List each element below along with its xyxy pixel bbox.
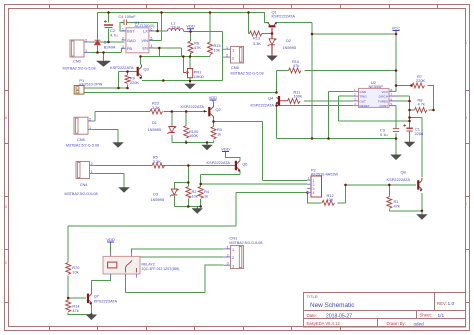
svg-text:VDD: VDD [221,146,230,151]
svg-text:4: 4 [354,102,356,106]
wire CN4 pin2 to R5 [90,165,152,167]
junction [388,184,391,187]
wire P2 pin4 to R12 [308,193,322,203]
junction [160,11,163,14]
svg-text:220K: 220K [130,80,139,85]
svg-text:VDD: VDD [186,24,195,29]
junction [247,11,250,14]
svg-text:1: 1 [91,170,93,174]
wire Q7 emitter [90,302,92,315]
wire R10 riser to Q4 [276,71,278,93]
wire OUT long [304,100,354,102]
resistor R12 10K (horizontal) [322,200,335,205]
svg-text:5: 5 [391,102,393,106]
svg-text:GND: GND [360,90,368,94]
junction [187,181,190,184]
wire R5 to Q6 base [163,165,236,167]
capacitor C3 0.1u [393,129,399,132]
svg-text:1: 1 [308,177,310,181]
wire Q1 emitter to VCC corner [277,23,312,35]
svg-text:CONT: CONT [380,104,389,108]
wire P1 top to Q3 base riser [84,72,128,89]
svg-text:KSP2222ATA: KSP2222ATA [272,14,296,19]
wire bottom row2 [172,142,214,144]
wire R10 row [277,70,397,72]
wire top rail [98,12,266,14]
wire big loop P2 pin4 [68,193,307,263]
svg-text:6: 6 [391,97,393,101]
ground row3 [196,207,198,209]
wire D1 bottom lead [171,135,173,143]
resistor R9 220K (vertical) [125,75,130,83]
wire C4 right lead [127,23,158,32]
wire R7 right riser [428,86,434,111]
zener D3 1N5995 [170,189,179,196]
wire D2 bottom [271,45,273,56]
ground CN4 [119,188,130,193]
svg-text:Q2: Q2 [216,107,221,112]
svg-text:1N5995: 1N5995 [151,197,165,202]
junction [275,91,278,94]
svg-text:D1: D1 [152,120,157,125]
wire relay NO to CN1 pin1 [132,249,224,256]
svg-text:0.1u: 0.1u [380,132,388,137]
wire relay VDD stem [110,243,112,256]
junction [189,80,192,83]
svg-text:3: 3 [232,264,234,268]
svg-text:REV:: REV: [437,301,447,306]
svg-text:1: 1 [232,49,234,53]
junction [90,313,93,316]
svg-text:3.3K: 3.3K [253,41,261,46]
svg-text:10k: 10k [214,48,220,53]
wire Q7 collector route [91,277,110,293]
junction [182,55,185,58]
junction [102,51,105,54]
svg-text:33uH: 33uH [171,25,180,30]
svg-text:EN: EN [142,46,148,51]
svg-text:10k: 10k [192,194,198,199]
junction [212,120,215,123]
svg-text:47K: 47K [194,45,201,50]
svg-text:EasyEDA V5.4.12: EasyEDA V5.4.12 [307,321,341,326]
connector P1 KF2510-2PIN [74,86,84,95]
wire D4 riser [97,13,99,40]
transistor Q7 KPS2222ATA [87,294,92,305]
ground D2 [267,56,278,61]
svg-text:2: 2 [85,39,87,43]
svg-text:NE555P: NE555P [369,84,384,89]
wire PR1 bottom [189,78,191,85]
svg-text:Q8: Q8 [401,170,406,175]
title block [304,293,466,328]
resistor R8 4.7k (horizontal) [415,108,428,113]
wire Q1 collector [265,13,270,23]
junction [189,30,192,33]
svg-text:2: 2 [232,57,234,61]
svg-text:M3TBA2.5/2-G-5.08: M3TBA2.5/2-G-5.08 [63,67,96,71]
junction [209,11,212,14]
wire R3 leads [213,122,215,143]
svg-text:D2: D2 [286,38,291,43]
wire R15 leads [209,13,211,57]
svg-text:R13: R13 [253,36,260,41]
svg-text:1k: 1k [204,194,208,199]
wire 555 GND riser [329,92,397,139]
ground Q7 [86,315,97,320]
svg-text:8: 8 [391,88,393,92]
junction [117,87,120,90]
svg-text:KF2510-2PIN: KF2510-2PIN [79,83,102,87]
connector CN5 M3TBA2.5/2-G-5.08 [74,117,94,134]
svg-text:1k: 1k [217,132,221,137]
svg-text:3: 3 [354,97,356,101]
wire CN0 pin2 to U1 GAO [90,41,125,43]
junction [395,84,398,87]
wire relay pin to CN1 pin3 [126,265,224,292]
resistor R3 1k (vertical) [211,127,216,140]
svg-text:VDD: VDD [106,237,115,242]
svg-text:B: B [465,116,467,120]
wire branch to Q8 collector [410,118,423,178]
svg-text:VCC: VCC [382,90,389,94]
wire R7 link [396,85,412,87]
junction [67,297,70,300]
wire R2 leads [187,183,189,207]
junction [158,47,161,50]
resistor R7 220K (horizontal) [412,83,425,88]
resistor R4 1k (vertical) [198,187,203,199]
svg-text:RESET: RESET [360,104,370,108]
svg-text:M3TBA2.5/2-G-5.08: M3TBA2.5/2-G-5.08 [65,192,98,196]
wire relay COM to CN1 pin2 [140,256,224,258]
junction [107,41,110,44]
junction [327,137,330,140]
svg-text:JQC-3FF-012 1ZST(555): JQC-3FF-012 1ZST(555) [142,267,180,271]
wire TRIG route [339,96,410,121]
transistor Q4 KSP2222ATA (mirrored) [275,96,287,105]
capacitor C4 100nF [124,20,127,26]
wire R8 leads [410,109,434,111]
svg-text:CN6: CN6 [231,65,239,70]
wire RESET long [277,105,354,107]
junction [171,110,174,113]
svg-text:1N5995: 1N5995 [283,45,297,50]
resistor R22 3.3K (horizontal) [150,109,163,114]
connector CN1 M3TBA2.5/3-G-5.08 (3 pin, mirrored) [224,245,244,268]
ground 555/C3 [391,155,402,160]
svg-text:10KΩ: 10KΩ [194,74,204,79]
border section letters [5,41,468,265]
junction [421,210,424,213]
wire R13 leads [249,13,273,34]
junction [311,33,314,36]
wire Q3 base [119,71,137,73]
wire Q2 to P2 pin1 route [214,122,308,181]
svg-text:DISCH: DISCH [379,95,388,99]
power VCC [392,25,401,34]
wire R4 column [200,175,202,207]
svg-text:1: 1 [227,245,229,249]
svg-text:47k: 47k [293,63,299,68]
resistor R14 47k (vertical) [66,300,71,312]
svg-text:CN5: CN5 [77,137,85,142]
svg-text:2018-05-27: 2018-05-27 [326,313,352,319]
wire GND row mid [277,106,397,139]
wire EN net [141,56,211,58]
junction [185,141,188,144]
svg-text:Date:: Date: [307,313,318,318]
svg-text:100K: 100K [189,133,198,138]
junction [395,69,398,72]
diode D4 B240A [95,40,101,45]
svg-text:2: 2 [122,37,124,41]
svg-text:3.3K: 3.3K [152,105,160,110]
svg-text:2: 2 [226,54,228,58]
svg-text:KSP2222ATA: KSP2222ATA [181,104,205,109]
wire Q3 emitter row [142,80,223,82]
wire Q2 emitter riser [213,118,215,122]
junction [408,109,411,112]
resistor R15 10k (vertical) [208,42,213,55]
wire D1 top lead [171,112,173,127]
junction [271,32,274,35]
IC U1 ACZ1360 [122,27,154,53]
svg-text:C4 100nF: C4 100nF [119,14,137,19]
svg-text:RELAY2: RELAY2 [142,263,155,267]
svg-text:1: 1 [354,88,356,92]
wire THRES stub link [390,100,410,102]
svg-text:E: E [5,261,7,265]
svg-text:2: 2 [89,118,91,122]
transistor Q1 KSP2222ATA (rotated, base down) [268,22,278,27]
svg-text:THRES: THRES [378,100,388,104]
wire D3 branch [174,166,201,207]
svg-text:7: 7 [391,93,393,97]
junction [408,120,411,123]
wire R9 leads [127,72,129,89]
transistor Q8 KSP2222ATA [417,178,422,192]
wire Q6 emitter route [201,171,240,175]
resistor R70 10k (vertical) [66,263,71,275]
svg-text:KSP2222ATA: KSP2222ATA [207,160,231,165]
wire R1 leads [388,185,390,211]
wire R1 to Q8 emitter [389,210,422,212]
resistor R11 100k (horizontal) [288,99,301,104]
junction [275,104,278,107]
wire LX to L1 [149,30,168,32]
junction [395,137,398,140]
svg-text:1: 1 [122,27,124,31]
resistor R10 47k (horizontal) [289,68,302,73]
svg-text:CN1: CN1 [229,236,237,241]
svg-text:47k: 47k [72,308,78,313]
svg-text:2: 2 [354,93,356,97]
transistor Q3 KSP2222ATA [137,65,142,80]
transistor Q6 KSP2222ATA [235,161,241,173]
svg-text:1: 1 [89,126,91,130]
wire C4 left lead [120,23,126,31]
svg-text:1: 1 [85,49,87,53]
svg-text:CN4: CN4 [80,182,89,187]
resistor R2 10k (vertical) [186,187,191,199]
svg-text:1.0: 1.0 [448,301,455,307]
wire GND net CN0 [90,49,125,53]
wire PR1 wiper lead [182,57,184,73]
junction [311,137,314,140]
svg-text:10k: 10k [72,269,78,274]
junction [126,87,129,90]
svg-text:4.7k: 4.7k [418,102,425,107]
junction [306,191,309,194]
svg-text:oded: oded [414,321,425,326]
junction [189,55,192,58]
power VDD (Q2) [209,95,218,102]
svg-text:3.3K: 3.3K [153,159,161,164]
ground D4/CN0 [97,61,111,67]
connector P2 KF2510-4A02W [307,176,322,197]
ground row2 [206,143,208,146]
wire P1 bottom GND long [84,92,277,94]
wire CN4 pin1 to gnd [90,174,124,188]
resistor TR100 100K (vertical) [184,126,189,139]
svg-text:BST: BST [127,29,135,34]
svg-text:3: 3 [122,45,124,49]
wire CN6 riser [222,32,224,81]
ground Q8 [417,215,428,220]
svg-text:KSP2222ATA: KSP2222ATA [387,177,411,182]
wire gnd stem D4 area [103,53,105,62]
power VDD (Q6) [221,146,230,152]
svg-text:220K: 220K [416,78,425,83]
svg-text:KPS2222ATA: KPS2222ATA [94,298,118,303]
svg-text:3: 3 [227,262,229,266]
wire R6 leads [190,32,192,57]
potentiometer PR1 10KQ [183,69,192,78]
zener D2 1N5995 [268,39,277,46]
junction [408,100,411,103]
svg-text:FB: FB [127,46,132,51]
svg-text:VIN: VIN [141,38,148,43]
svg-text:TITLE:: TITLE: [307,294,319,299]
wire R12 to Q8 base [346,184,417,186]
svg-text:D3: D3 [153,192,158,197]
wire Q8 emitter riser [421,193,423,215]
junction [395,33,398,36]
svg-text:B240A: B240A [104,45,116,50]
wire THRES column [390,96,410,129]
wire R22 to Q2 base [164,111,208,113]
junction [162,79,165,82]
wire Q1 base [271,28,273,39]
power VDD (L1) [186,24,195,32]
junction [187,205,190,208]
wire R12 right riser [338,185,346,203]
svg-text:1: 1 [226,46,228,50]
junction [156,30,159,33]
junction [126,70,129,73]
junction [107,11,110,14]
svg-text:KF2510-4A02W: KF2510-4A02W [311,172,338,176]
connector CN0 M3TBA2.5/2-G-5.08 [70,39,90,58]
svg-text:ACZ1360(X): ACZ1360(X) [135,24,155,28]
svg-text:Q4: Q4 [268,96,274,101]
junction [187,164,190,167]
svg-text:TRIG: TRIG [360,95,368,99]
svg-text:KSP2222ATA: KSP2222ATA [251,103,275,108]
wire Q2 collector riser [213,102,215,106]
junction [408,116,411,119]
IC U2 NE555P [354,88,396,108]
svg-text:220u: 220u [415,131,424,136]
svg-text:4: 4 [151,44,153,48]
junction [185,110,188,113]
resistor R13 3.3K (horizontal) [250,31,263,36]
wire L1 to VDD node [184,31,223,33]
power VDD (relay) [106,237,115,243]
junction [139,55,142,58]
zener D1 1N5995 [167,127,176,134]
svg-text:CN0: CN0 [73,59,82,64]
svg-text:M3TBA2.5/3-G-5.08: M3TBA2.5/3-G-5.08 [229,241,262,245]
svg-text:1N5995: 1N5995 [148,127,162,132]
wire R4 to P2 pin2 [201,183,307,185]
svg-text:VCC: VCC [392,25,401,30]
wire PR1 top lead [189,57,191,69]
wire C1 column [409,129,411,143]
relay RELAY2 JQC-3FF-012 [103,253,140,278]
svg-text:Q6: Q6 [242,162,247,167]
resistor R1 47k (vertical) [387,197,392,209]
svg-text:B: B [5,116,7,120]
wire R70-R14 column [68,276,91,315]
inductor L1 33uH [168,29,184,31]
svg-text:4.7u: 4.7u [110,33,118,38]
svg-text:2: 2 [91,162,93,166]
capacitor C2 4.7u [104,24,113,26]
transistor Q2 KSP2222ATA [204,106,214,119]
svg-text:10K: 10K [327,197,334,202]
wire VCC riser long [311,34,313,139]
svg-text:GAO: GAO [127,38,136,43]
svg-text:Sheet:: Sheet: [420,313,432,318]
ground PR1 [185,84,196,89]
svg-text:VDD: VDD [209,95,218,100]
svg-text:M3TBA2.5/2-G-5.08: M3TBA2.5/2-G-5.08 [231,72,264,76]
svg-text:1: 1 [232,248,234,252]
capacitor C1 220u [406,127,412,129]
ground C1 [404,142,415,147]
connector CN6 M3TBA2.5/2-G-5.08 (mirrored) [223,46,244,63]
svg-text:LX: LX [143,29,148,34]
svg-text:5: 5 [151,37,153,41]
wire VIN riser [149,13,162,41]
junction [199,205,202,208]
wire relay coil- to Q7 [110,275,112,281]
svg-text:Drawn By:: Drawn By: [387,321,406,326]
svg-text:47k: 47k [394,204,400,209]
svg-text:2: 2 [227,254,229,258]
wire Q6 VDD stem [226,153,241,161]
junction [206,141,209,144]
ground CN5 [113,143,124,148]
junction [432,109,435,112]
wire VCC stem [395,31,397,92]
svg-text:Q3: Q3 [144,67,149,72]
wire C2 column [108,13,110,23]
wire CONT / C3 column [390,106,397,156]
junction [344,184,347,187]
